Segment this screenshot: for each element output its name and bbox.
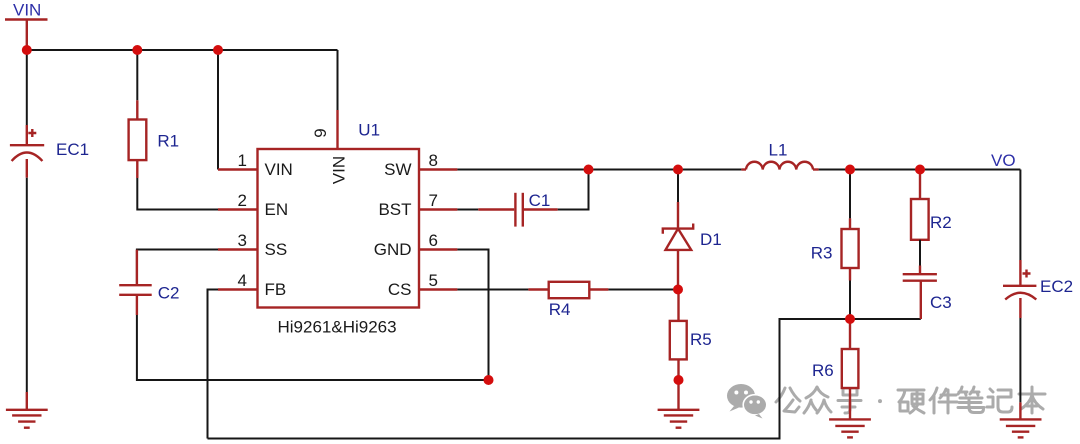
svg-text:EC1: EC1 xyxy=(56,140,89,159)
svg-text:R5: R5 xyxy=(690,330,712,349)
svg-text:9: 9 xyxy=(311,128,330,137)
wire EC1 top xyxy=(26,50,28,125)
svg-text:VIN: VIN xyxy=(330,156,349,184)
众 xyxy=(804,387,831,413)
WATERMARK-GROUP (drawn under circuit) xyxy=(727,384,1045,419)
svg-text:CS: CS xyxy=(388,280,412,299)
power port VIN xyxy=(5,1,48,51)
junction FB node xyxy=(845,314,855,324)
svg-text:R3: R3 xyxy=(811,244,833,263)
junction R3 top xyxy=(845,165,855,175)
junction node VIN-EC1 xyxy=(22,45,32,55)
junction R5 bottom xyxy=(674,375,684,385)
· xyxy=(878,399,882,403)
svg-text:2: 2 xyxy=(238,191,247,210)
svg-text:GND: GND xyxy=(374,240,412,259)
svg-text:7: 7 xyxy=(429,191,438,210)
svg-text:4: 4 xyxy=(238,271,247,290)
wire SS to C2 xyxy=(137,250,218,286)
capacitor C3 xyxy=(903,266,952,320)
wire R2 bottom xyxy=(919,240,921,266)
wire EC1 bottom xyxy=(26,178,28,392)
resistor R2 xyxy=(911,170,952,240)
wire VO drop xyxy=(1019,170,1021,261)
svg-text:R4: R4 xyxy=(549,300,571,319)
svg-text:VO: VO xyxy=(991,151,1016,170)
ground EC2 xyxy=(1000,402,1042,437)
wechat icon xyxy=(727,384,767,419)
resistor R4 xyxy=(528,282,608,319)
junction R2 top xyxy=(915,165,925,175)
pin 9 stub xyxy=(336,110,338,149)
pin 6 stub xyxy=(419,248,457,250)
svg-text:D1: D1 xyxy=(700,230,722,249)
ground R5 xyxy=(658,380,700,428)
wire R1 top xyxy=(136,50,138,100)
wire FB corner xyxy=(208,290,219,439)
capacitor EC1 xyxy=(10,125,89,178)
wire R1 to pin2 xyxy=(137,178,218,210)
svg-text:R6: R6 xyxy=(812,361,834,380)
junction R4-D1-R5 xyxy=(673,285,683,295)
wire CS to R4 xyxy=(457,289,528,291)
capacitor EC2 xyxy=(1003,260,1073,318)
wire pin1 drop xyxy=(217,50,219,170)
svg-text:C1: C1 xyxy=(529,191,551,210)
wire bottom FB run xyxy=(208,319,921,439)
pin 5 stub xyxy=(419,288,457,290)
junction D1 top xyxy=(673,165,683,175)
wire EC2 bottom xyxy=(1019,318,1021,402)
svg-text:VIN: VIN xyxy=(13,1,41,20)
svg-text:8: 8 xyxy=(429,151,438,170)
junction C1-SW xyxy=(584,165,594,175)
号 xyxy=(838,388,861,413)
junction GND-bottom xyxy=(484,375,494,385)
wire L1 to VO corner xyxy=(819,169,1021,171)
pin 4 stub xyxy=(218,288,258,290)
wire R3 top lead xyxy=(849,170,851,219)
svg-text:5: 5 xyxy=(429,271,438,290)
resistor R5 xyxy=(670,290,712,381)
ground R6 xyxy=(829,419,871,437)
svg-text:VIN: VIN xyxy=(265,160,293,179)
diode D1 (schottky, cathode up) xyxy=(663,202,722,290)
resistor R3 xyxy=(811,218,859,280)
wire R3 bottom xyxy=(849,281,851,320)
svg-text:EN: EN xyxy=(265,200,289,219)
svg-text:SS: SS xyxy=(265,240,288,259)
svg-text:1: 1 xyxy=(238,151,247,170)
svg-text:3: 3 xyxy=(238,231,247,250)
wire top rail VIN xyxy=(27,49,338,51)
capacitor C1 xyxy=(478,191,557,227)
wire C1 up to SW xyxy=(558,170,589,210)
svg-text:FB: FB xyxy=(265,280,287,299)
svg-text:U1: U1 xyxy=(358,121,380,140)
resistor R1 xyxy=(129,100,180,178)
svg-text:R1: R1 xyxy=(157,132,179,151)
inductor L1 xyxy=(741,141,818,170)
resistor R6 xyxy=(812,319,858,419)
wire SW run xyxy=(457,169,741,171)
wire D1 top lead xyxy=(677,170,679,203)
pin 3 stub xyxy=(218,248,258,250)
pin 7 stub xyxy=(419,208,457,210)
wire R4 to D1 node xyxy=(608,289,678,291)
junction node pin1 drop xyxy=(213,45,223,55)
pin 1 stub xyxy=(218,168,258,170)
svg-text:R2: R2 xyxy=(930,213,952,232)
笔 xyxy=(958,387,984,413)
svg-text:L1: L1 xyxy=(769,141,788,160)
svg-text:EC2: EC2 xyxy=(1040,277,1073,296)
公 xyxy=(776,388,800,412)
svg-text:C3: C3 xyxy=(930,293,952,312)
svg-text:BST: BST xyxy=(378,200,411,219)
件 xyxy=(930,388,957,413)
wire BST to C1 xyxy=(457,209,478,211)
capacitor C2 xyxy=(119,250,179,315)
svg-text:C2: C2 xyxy=(158,284,180,303)
本 xyxy=(1019,387,1045,413)
watermark text 公众号·硬件笔记本 (hand-drawn glyphs) xyxy=(776,387,1045,413)
junction node R1 top xyxy=(132,45,142,55)
ground EC1 xyxy=(6,392,48,428)
IC U1 xyxy=(258,149,420,337)
硬 xyxy=(898,390,924,413)
svg-text:SW: SW xyxy=(384,160,411,179)
wire C2 bottom xyxy=(137,315,489,380)
记 xyxy=(987,389,1012,412)
pin 2 stub xyxy=(218,208,258,210)
svg-text:Hi9261&Hi9263: Hi9261&Hi9263 xyxy=(278,318,397,337)
wire pin9 drop xyxy=(337,50,339,110)
pin 8 stub xyxy=(419,168,457,170)
svg-text:6: 6 xyxy=(429,231,438,250)
wire GND pin to bottom xyxy=(457,250,488,381)
